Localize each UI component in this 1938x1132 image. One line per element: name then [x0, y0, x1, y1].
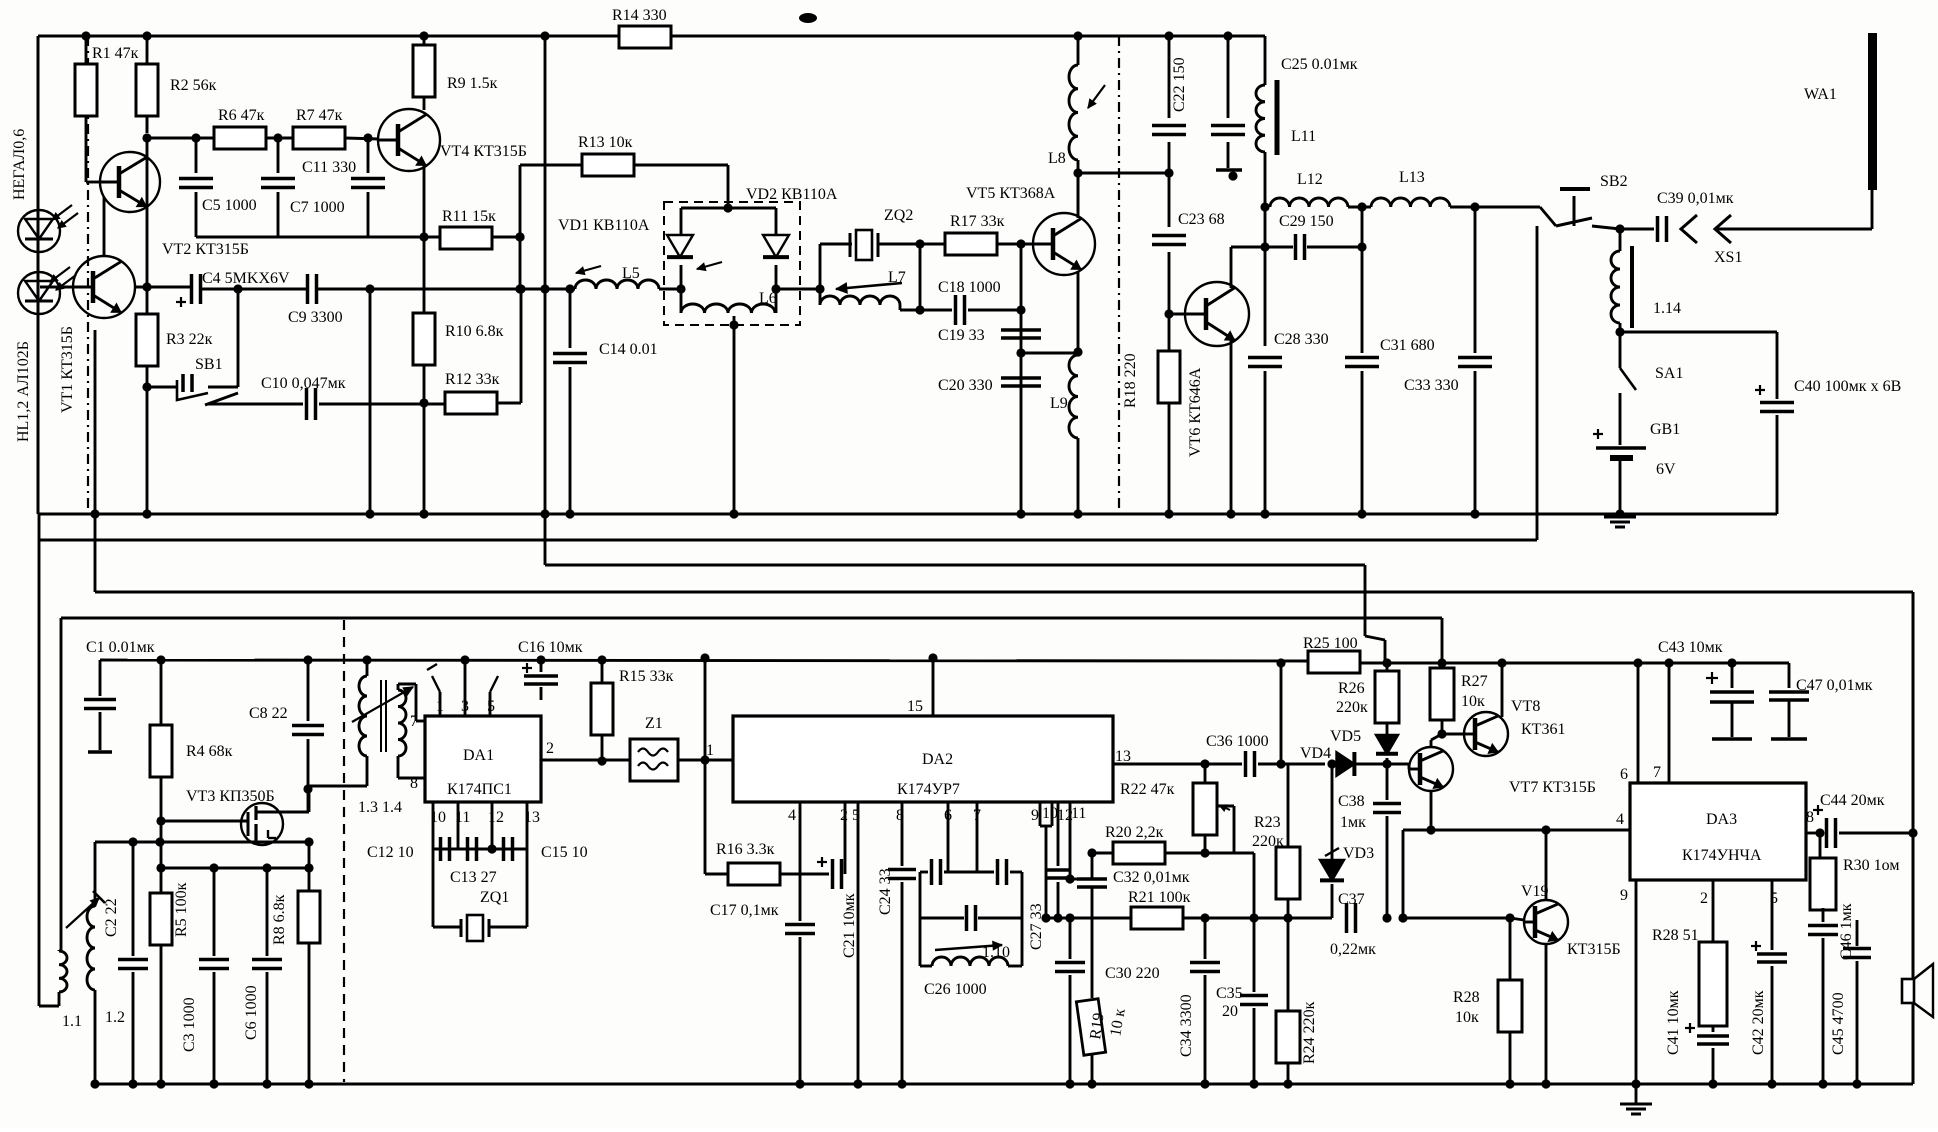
svg-text:0,22мк: 0,22мк [1330, 941, 1376, 958]
svg-text:C2 22: C2 22 [103, 898, 120, 937]
svg-text:R27: R27 [1461, 673, 1488, 690]
svg-text:VT7 КТ315Б: VT7 КТ315Б [1509, 779, 1596, 796]
svg-text:10к: 10к [1455, 1009, 1479, 1026]
svg-text:C6 1000: C6 1000 [243, 985, 260, 1040]
svg-text:C11 330: C11 330 [302, 159, 356, 176]
svg-text:9: 9 [1620, 887, 1628, 904]
svg-text:R24 220к: R24 220к [1301, 1001, 1318, 1064]
svg-text:К174ПС1: К174ПС1 [447, 781, 512, 798]
svg-text:HL1,2 АЛ102Б: HL1,2 АЛ102Б [15, 341, 32, 442]
svg-text:C41 10мк: C41 10мк [1665, 990, 1682, 1055]
svg-text:SB2: SB2 [1600, 173, 1628, 190]
svg-text:R6 47к: R6 47к [218, 107, 265, 124]
svg-text:C30 220: C30 220 [1105, 965, 1160, 982]
svg-text:C31 680: C31 680 [1380, 337, 1435, 354]
svg-text:V19: V19 [1521, 883, 1549, 900]
svg-text:2: 2 [840, 807, 848, 824]
svg-text:C4 5MKX6V: C4 5MKX6V [202, 270, 290, 287]
svg-text:C7 1000: C7 1000 [290, 199, 345, 216]
svg-text:12: 12 [488, 809, 504, 826]
svg-text:C47 0,01мк: C47 0,01мк [1796, 677, 1873, 694]
svg-text:R11 15к: R11 15к [442, 208, 496, 225]
svg-text:VT2 КТ315Б: VT2 КТ315Б [162, 241, 249, 258]
svg-text:C9 3300: C9 3300 [288, 309, 343, 326]
svg-text:R1 47к: R1 47к [92, 45, 139, 62]
svg-text:10к: 10к [1461, 693, 1485, 710]
svg-text:R9 1.5к: R9 1.5к [447, 75, 498, 92]
svg-text:11: 11 [1071, 805, 1086, 822]
svg-text:КТ361: КТ361 [1521, 721, 1565, 738]
svg-text:L5: L5 [622, 265, 640, 282]
svg-text:1.14: 1.14 [1653, 300, 1681, 317]
svg-text:R25 100: R25 100 [1303, 635, 1358, 652]
svg-text:C42 20мк: C42 20мк [1750, 990, 1767, 1055]
svg-text:9: 9 [1031, 807, 1039, 824]
svg-text:R28 51: R28 51 [1652, 927, 1699, 944]
svg-text:VD2 КВ110А: VD2 КВ110А [746, 186, 838, 203]
svg-text:15: 15 [907, 698, 923, 715]
svg-text:C12 10: C12 10 [367, 844, 414, 861]
svg-text:C33 330: C33 330 [1404, 377, 1459, 394]
svg-text:C22 150: C22 150 [1171, 57, 1188, 112]
svg-text:2: 2 [546, 740, 554, 757]
svg-text:C16 10мк: C16 10мк [518, 639, 583, 656]
svg-text:1.1: 1.1 [62, 1013, 82, 1030]
svg-text:ZQ2: ZQ2 [884, 207, 913, 224]
svg-text:C24 33: C24 33 [877, 868, 894, 915]
svg-text:C36 1000: C36 1000 [1206, 733, 1269, 750]
svg-text:R8 6.8к: R8 6.8к [271, 894, 288, 945]
svg-text:К174УНЧА: К174УНЧА [1682, 847, 1762, 864]
svg-text:С29 150: С29 150 [1279, 213, 1334, 230]
svg-text:C35: C35 [1216, 985, 1243, 1002]
svg-text:R4 68к: R4 68к [186, 743, 233, 760]
svg-text:R14 330: R14 330 [612, 7, 667, 24]
svg-text:C39 0,01мк: C39 0,01мк [1657, 190, 1734, 207]
svg-text:C37: C37 [1338, 891, 1365, 908]
svg-text:C18 1000: C18 1000 [938, 279, 1001, 296]
svg-text:C10 0,047мк: C10 0,047мк [261, 375, 346, 392]
svg-text:WA1: WA1 [1804, 86, 1837, 103]
svg-text:VT3 КП350Б: VT3 КП350Б [186, 788, 275, 805]
svg-text:C44 20мк: C44 20мк [1820, 792, 1885, 809]
svg-text:C40 100мк x 6В: C40 100мк x 6В [1794, 378, 1901, 395]
svg-text:13: 13 [1115, 748, 1131, 765]
svg-text:C17 0,1мк: C17 0,1мк [710, 902, 779, 919]
svg-text:4: 4 [1616, 811, 1624, 828]
svg-text:L6: L6 [759, 290, 777, 307]
svg-text:C32 0,01мк: C32 0,01мк [1113, 869, 1190, 886]
svg-text:L9: L9 [1050, 395, 1068, 412]
svg-text:НЕГАЛ0,6: НЕГАЛ0,6 [11, 129, 28, 200]
svg-text:C14 0.01: C14 0.01 [599, 341, 658, 358]
svg-text:C38: C38 [1338, 793, 1365, 810]
svg-text:R10 6.8к: R10 6.8к [445, 323, 504, 340]
svg-text:C13 27: C13 27 [450, 869, 497, 886]
svg-text:R12 33к: R12 33к [445, 371, 500, 388]
svg-text:L12: L12 [1297, 171, 1323, 188]
svg-text:L7: L7 [888, 269, 906, 286]
svg-text:7: 7 [1653, 764, 1661, 781]
svg-text:R3 22к: R3 22к [166, 331, 213, 348]
svg-text:R18 220: R18 220 [1122, 353, 1139, 408]
svg-text:R21 100к: R21 100к [1128, 889, 1191, 906]
svg-text:1мк: 1мк [1340, 814, 1366, 831]
svg-text:C25 0.01мк: C25 0.01мк [1281, 56, 1358, 73]
svg-text:КТ315Б: КТ315Б [1567, 941, 1621, 958]
svg-text:VD1 КВ110А: VD1 КВ110А [558, 217, 650, 234]
svg-text:20: 20 [1222, 1003, 1238, 1020]
svg-text:VT1 КТ315Б: VT1 КТ315Б [59, 326, 76, 413]
svg-text:R30 1ом: R30 1ом [1843, 857, 1900, 874]
svg-text:R13 10к: R13 10к [578, 134, 633, 151]
svg-text:DA1: DA1 [463, 747, 494, 764]
svg-text:C43 10мк: C43 10мк [1658, 639, 1723, 656]
svg-text:L13: L13 [1399, 169, 1425, 186]
svg-text:VT4 КТ315Б: VT4 КТ315Б [440, 143, 527, 160]
svg-text:XS1: XS1 [1714, 249, 1742, 266]
svg-text:1.3 1.4: 1.3 1.4 [358, 799, 402, 816]
svg-text:VD5: VD5 [1330, 728, 1361, 745]
svg-text:SA1: SA1 [1655, 365, 1683, 382]
svg-text:SB1: SB1 [195, 356, 223, 373]
svg-text:220к: 220к [1252, 833, 1284, 850]
svg-text:1.10: 1.10 [982, 944, 1010, 961]
svg-text:R20 2,2к: R20 2,2к [1105, 824, 1164, 841]
svg-text:C15 10: C15 10 [541, 844, 588, 861]
svg-text:DA3: DA3 [1706, 811, 1737, 828]
svg-text:C3 1000: C3 1000 [181, 997, 198, 1052]
svg-text:7: 7 [410, 713, 418, 730]
svg-text:GB1: GB1 [1650, 421, 1680, 438]
svg-text:R15 33к: R15 33к [619, 668, 674, 685]
svg-text:C19 33: C19 33 [938, 327, 985, 344]
svg-text:4: 4 [788, 807, 796, 824]
svg-text:L11: L11 [1291, 128, 1316, 145]
svg-text:R16 3.3к: R16 3.3к [716, 841, 775, 858]
svg-text:C1 0.01мк: C1 0.01мк [86, 639, 155, 656]
svg-text:C28 330: C28 330 [1274, 331, 1329, 348]
svg-text:С23 68: С23 68 [1178, 211, 1225, 228]
svg-text:К174УР7: К174УР7 [897, 781, 960, 798]
svg-text:220к: 220к [1336, 699, 1368, 716]
svg-text:R26: R26 [1338, 680, 1365, 697]
svg-text:C20 330: C20 330 [938, 377, 993, 394]
svg-text:R7 47к: R7 47к [296, 107, 343, 124]
svg-text:8: 8 [1806, 809, 1814, 826]
svg-text:VT5 КТ368А: VT5 КТ368А [966, 185, 1056, 202]
svg-text:VT6 КТ646А: VT6 КТ646А [1187, 367, 1204, 457]
svg-text:VT8: VT8 [1511, 698, 1540, 715]
svg-text:C34 3300: C34 3300 [1178, 994, 1195, 1057]
svg-text:C21 10мк: C21 10мк [841, 893, 858, 958]
svg-text:1.2: 1.2 [105, 1009, 125, 1026]
svg-text:2: 2 [1700, 890, 1708, 907]
svg-text:10: 10 [1042, 805, 1058, 822]
svg-text:R5 100к: R5 100к [173, 882, 190, 937]
svg-text:ZQ1: ZQ1 [480, 889, 509, 906]
svg-text:6V: 6V [1656, 461, 1676, 478]
svg-text:C5 1000: C5 1000 [202, 197, 257, 214]
svg-text:R28: R28 [1453, 989, 1480, 1006]
svg-text:DA2: DA2 [922, 751, 953, 768]
svg-text:C27 33: C27 33 [1028, 903, 1045, 950]
svg-text:8: 8 [410, 775, 418, 792]
svg-text:C46 1мк: C46 1мк [1838, 903, 1855, 960]
svg-text:R2 56к: R2 56к [170, 77, 217, 94]
svg-text:C45 4700: C45 4700 [1830, 992, 1847, 1055]
svg-text:VD3: VD3 [1343, 845, 1374, 862]
svg-text:Z1: Z1 [645, 715, 663, 732]
svg-text:C26 1000: C26 1000 [924, 981, 987, 998]
svg-text:R17 33к: R17 33к [950, 213, 1005, 230]
svg-text:6: 6 [1620, 766, 1628, 783]
svg-text:R23: R23 [1254, 814, 1281, 831]
svg-text:VD4: VD4 [1300, 745, 1331, 762]
svg-text:R22 47к: R22 47к [1120, 781, 1175, 798]
svg-text:C8 22: C8 22 [249, 705, 288, 722]
svg-text:L8: L8 [1048, 150, 1066, 167]
